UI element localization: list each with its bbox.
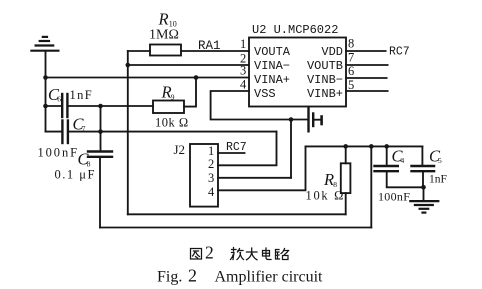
svg-text:1: 1 <box>240 37 246 51</box>
svg-text:9: 9 <box>171 93 175 102</box>
wire: pin8 stub + RC7 <box>346 50 386 52</box>
svg-text:Fig.: Fig. <box>157 269 182 286</box>
路 <box>276 249 289 260</box>
capacitor C8 plates <box>88 150 112 152</box>
svg-text:2: 2 <box>188 266 197 286</box>
node dot VSS <box>289 117 294 122</box>
ground (top-left) <box>31 37 58 51</box>
capacitor C5 plates <box>412 165 435 167</box>
svg-text:Amplifier circuit: Amplifier circuit <box>215 269 324 286</box>
svg-text:5: 5 <box>438 156 442 165</box>
svg-text:RA1: RA1 <box>198 39 221 53</box>
svg-text:VINA−: VINA− <box>254 59 290 73</box>
svg-text:5: 5 <box>348 78 354 92</box>
svg-text:VOUTB: VOUTB <box>307 59 343 73</box>
svg-text:1MΩ: 1MΩ <box>149 28 179 43</box>
放 <box>231 248 244 260</box>
svg-text:10k Ω: 10k Ω <box>306 189 346 203</box>
svg-text:6: 6 <box>348 64 354 78</box>
svg-text:7: 7 <box>82 124 86 133</box>
wire: C4 top stub <box>386 146 388 165</box>
resistor R10 <box>150 45 181 56</box>
svg-text:6: 6 <box>57 95 61 104</box>
svg-text:2: 2 <box>208 157 214 171</box>
wire: ground stem bottom right <box>423 187 425 200</box>
svg-text:R: R <box>158 10 169 29</box>
wire: VSS pin4 path (left, down, right) <box>211 91 308 120</box>
wire: RA1 / pin1 horizontal <box>181 50 249 52</box>
wire: bottom wire B to R8 <box>128 213 346 215</box>
wire: R8 bottom stub <box>345 193 347 214</box>
svg-text:3: 3 <box>208 171 214 185</box>
wire: bottom wire C <box>100 227 371 229</box>
svg-text:1: 1 <box>208 144 214 158</box>
wire: vertical x=100.5 C6/C7 to C8 <box>100 106 102 151</box>
capacitor C6 plates <box>61 94 63 117</box>
svg-text:3: 3 <box>240 64 246 78</box>
图 <box>191 249 202 260</box>
wire: R10 left stub <box>128 50 150 52</box>
wire: vertical x=371.3 up to top-right rail <box>370 146 372 227</box>
svg-text:2: 2 <box>205 243 214 263</box>
node dot C6 left <box>43 104 48 109</box>
node dot C4 top <box>384 144 389 149</box>
wire: pin5 stub <box>346 90 388 92</box>
svg-text:RC7: RC7 <box>226 141 247 154</box>
svg-text:U2 U.MCP6022: U2 U.MCP6022 <box>252 23 338 37</box>
svg-text:VSS: VSS <box>254 87 276 101</box>
svg-text:1nF: 1nF <box>429 174 447 186</box>
svg-text:100nF: 100nF <box>378 190 410 204</box>
svg-text:4: 4 <box>401 156 405 165</box>
node dot R9/pin3 <box>194 75 199 80</box>
wire: vertical rail x=128 (R10 left / pin2 / R8 bottom) <box>127 51 129 214</box>
wire: C7 net left <box>46 131 62 133</box>
大 <box>247 248 258 260</box>
wire: J2 pin1 stub RC7 <box>218 152 245 154</box>
svg-text:VDD: VDD <box>321 45 343 59</box>
wire: vertical x=291 VSS node down to J2 pin3 <box>290 120 292 178</box>
svg-text:4: 4 <box>208 185 215 199</box>
wire: C6 right to R9 left <box>68 105 153 107</box>
svg-text:4: 4 <box>240 78 247 92</box>
wire: R8 top stub <box>345 146 347 163</box>
wire: C7 right long to J2 pin2 drop <box>69 131 276 133</box>
node dot rail/wireC <box>369 144 374 149</box>
wire: C8 bottom down <box>99 158 101 228</box>
svg-text:VOUTA: VOUTA <box>254 45 291 59</box>
wire: C5 top stub (corner of rail) <box>421 146 423 165</box>
wire: ground stem down left rail <box>45 52 47 132</box>
node dot C6 right <box>98 104 103 109</box>
svg-text:100nF: 100nF <box>38 146 79 160</box>
capacitor C7 plates <box>61 121 63 144</box>
IC U2 box <box>249 38 346 107</box>
svg-text:0.1 μF: 0.1 μF <box>55 168 96 182</box>
wire: J2 pin4 horizontal + up to top-right rail <box>218 146 306 190</box>
wire: small ground stub right of cap <box>313 119 320 121</box>
resistor R8 <box>341 163 351 193</box>
node dot R8 top <box>343 144 348 149</box>
node dot pin2/R10 <box>126 63 131 68</box>
svg-text:8: 8 <box>348 37 354 51</box>
svg-text:VINA+: VINA+ <box>254 73 290 87</box>
wire: pin3 net (VINA+) horizontal <box>46 77 250 79</box>
wire: C4 bottom to common <box>387 171 424 187</box>
svg-text:RC7: RC7 <box>389 46 410 59</box>
wire: R9 right to pin3 net <box>184 78 196 107</box>
svg-text:10k Ω: 10k Ω <box>155 116 189 130</box>
capacitor VSS decoupling plates <box>307 107 309 131</box>
wire: C5 bottom stub <box>422 171 424 187</box>
svg-text:VINB−: VINB− <box>307 73 343 87</box>
node dot C7/C8 <box>98 129 103 134</box>
caption Chinese: 图 2 放大电路 <box>191 243 289 263</box>
node dot C4/C5 bottom <box>421 185 426 190</box>
wire: pin6 stub <box>346 77 387 79</box>
ground (bottom-right) <box>410 201 438 213</box>
node dot pin3/gnd rail <box>43 75 48 80</box>
connector J2 box <box>190 144 218 207</box>
wire: J2 pin2 horizontal + up <box>218 132 277 166</box>
wire: pin2 net horizontal <box>128 64 249 66</box>
wire: J2 pin3 horizontal <box>218 177 291 179</box>
svg-text:VINB+: VINB+ <box>307 87 343 101</box>
电 <box>263 248 272 260</box>
wire: pin7 stub <box>346 64 388 66</box>
resistor R9 <box>153 101 184 114</box>
wire: top-right rail <box>306 145 423 147</box>
ground tick <box>320 117 323 125</box>
svg-text:1nF: 1nF <box>70 88 94 102</box>
capacitor C4 plates <box>375 165 398 167</box>
svg-text:J2: J2 <box>174 142 186 157</box>
svg-text:7: 7 <box>348 51 354 65</box>
wire: C6 net left <box>46 105 62 107</box>
